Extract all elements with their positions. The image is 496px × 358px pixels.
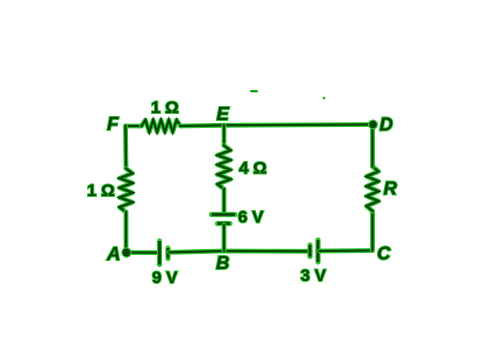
svg-text:9 V: 9 V	[152, 268, 178, 287]
wire F to top resistor	[126, 124, 142, 129]
battery B2 6V long plate	[212, 212, 236, 217]
svg-text:1 Ω: 1 Ω	[87, 181, 115, 200]
resistor R_FA 1 ohm (vertical, F-A)	[120, 169, 133, 213]
svg-text:R: R	[384, 178, 398, 199]
resistor R_EB 4 ohm (vertical)	[218, 146, 231, 190]
svg-text:D: D	[380, 114, 393, 135]
svg-text:4 Ω: 4 Ω	[239, 159, 267, 178]
svg-text:6 V: 6 V	[238, 208, 264, 227]
resistor R_FE 1 ohm (horizontal, F-E)	[142, 120, 181, 132]
wire 4 ohm resistor to 6V battery	[222, 189, 227, 213]
resistor R (vertical, D-C)	[367, 167, 379, 212]
wire A to 9V battery	[127, 250, 159, 255]
svg-text:B: B	[216, 252, 229, 273]
wire E to D	[224, 122, 373, 128]
wire F down to left resistor	[123, 126, 128, 169]
wire resistor R up to node D	[370, 125, 375, 167]
svg-text:F: F	[107, 113, 119, 134]
battery B3 3V short plate	[307, 245, 312, 257]
wire 3V battery to node C	[320, 248, 373, 253]
battery B1 9V long plate	[157, 241, 162, 265]
wire resistor to node E	[181, 123, 225, 128]
svg-text:C: C	[377, 243, 391, 264]
svg-text:E: E	[217, 103, 230, 124]
wire 9V battery to node B and on to 3V battery	[170, 251, 309, 252]
svg-text:A: A	[106, 243, 120, 264]
stray scan-artifact dash	[250, 90, 258, 92]
wire C up to resistor R	[370, 211, 375, 251]
node D junction dot	[368, 120, 378, 130]
stray scan-artifact dot	[323, 97, 326, 100]
battery B1 9V short plate	[165, 248, 170, 259]
wire left resistor to node A	[124, 212, 129, 253]
svg-text:1 Ω: 1 Ω	[151, 98, 179, 117]
svg-text:3 V: 3 V	[301, 266, 327, 285]
wire E down to 4 ohm resistor	[222, 125, 227, 145]
battery B3 3V long plate	[315, 240, 320, 262]
node A junction dot	[121, 247, 131, 257]
battery B2 6V short plate	[218, 221, 231, 226]
wire 6V battery to node B	[222, 225, 227, 251]
